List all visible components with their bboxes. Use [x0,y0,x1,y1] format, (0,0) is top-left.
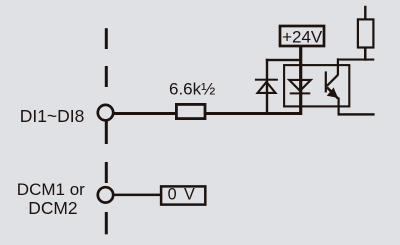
opto LED D2 cathode bar [290,92,311,94]
terminal node DCM (open circle) [98,187,113,202]
phototransistor Q1 emitter riser [338,98,340,115]
wire: emitter output (to internal circuit) [338,113,375,115]
dashed terminal-strip line: dash 5 [105,212,108,234]
diode D1 (protection, pointing up) [258,82,276,93]
wire: collector output (to internal circuit) [337,59,374,61]
phototransistor Q1 base bar [325,71,327,92]
optocoupler U1 body [284,65,349,106]
wire: DCM terminal to 0V box [113,194,160,197]
dashed terminal-strip line: dash 1 [105,28,108,49]
resistor R2 bottom lead [364,48,367,61]
dashed terminal-strip line: dash 2 [105,66,108,87]
wire: diode D1 vertical branch [266,59,268,115]
phototransistor Q1 collector riser [337,58,339,75]
wire: branch to protection diode D1 [266,59,302,61]
svg-text:6.6k½: 6.6k½ [169,79,215,98]
resistor R1 (6.6k) [176,104,205,118]
reference label box 0V [161,186,205,204]
svg-text:0 V: 0 V [168,186,197,204]
wire: DI terminal to resistor R1 [113,112,176,115]
svg-text:DCM2: DCM2 [28,198,77,218]
resistor R2 top lead [364,6,366,20]
dashed terminal-strip line: dash 4 [105,162,108,183]
diode D1 cathode bar [255,79,278,81]
svg-text:DCM1 or: DCM1 or [17,180,85,199]
supply label box +24V [280,26,324,46]
wire: +24V lead down through opto LED to main wire [299,47,302,116]
phototransistor Q1 emitter diagonal [327,87,338,98]
phototransistor Q1 collector diagonal [327,75,338,86]
phototransistor Q1 emitter arrowhead [327,88,338,98]
svg-text:+24V: +24V [282,27,323,46]
resistor R2 (pull-up, vertical) [358,19,374,47]
terminal node DI1~DI8 (open circle) [98,105,113,120]
wire: resistor R1 to LED cathode corner [205,112,302,115]
dashed terminal-strip line: dash 3 (stub below DI circle) [105,121,108,144]
opto LED D2 triangle (pointing down) [289,80,311,91]
svg-text:DI1~DI8: DI1~DI8 [20,106,85,126]
